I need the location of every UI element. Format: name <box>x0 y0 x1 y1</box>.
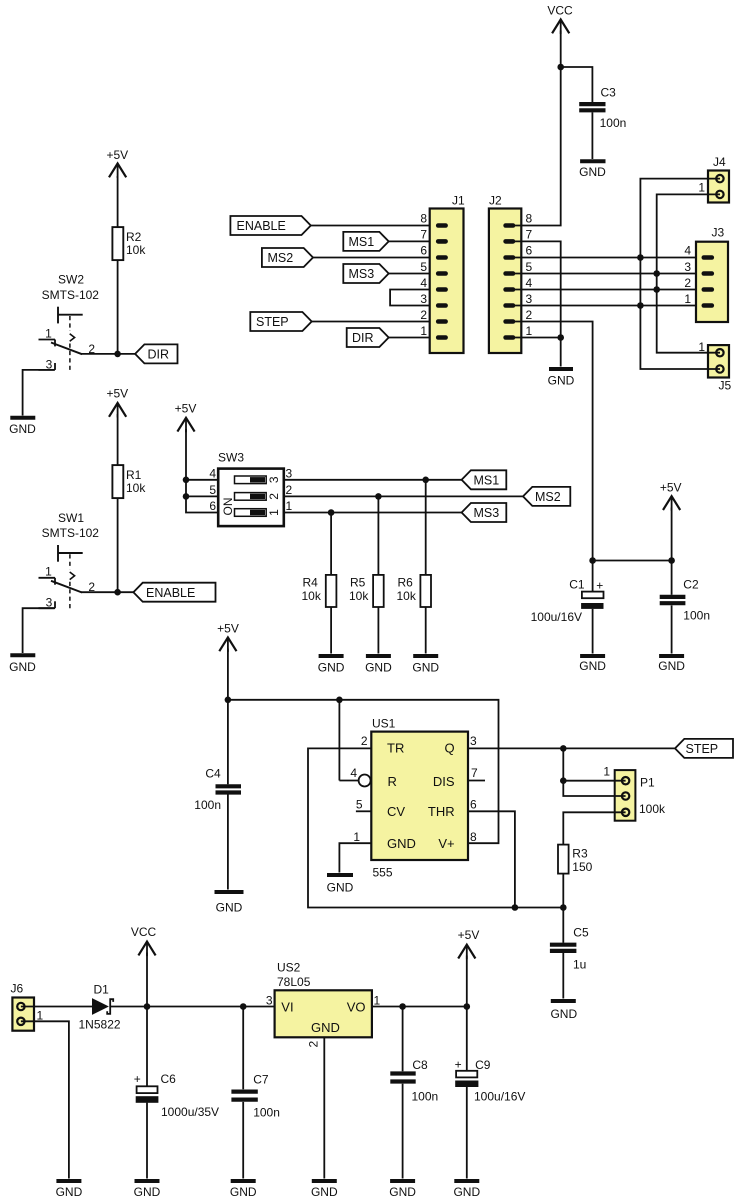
op-amp US1 (555 timer) <box>371 717 468 880</box>
svg-text:Q: Q <box>444 741 454 756</box>
resistor R3 <box>558 845 593 874</box>
ground (C4) <box>215 892 244 915</box>
wire C5 to ground <box>562 953 564 999</box>
junction C4 node <box>225 697 232 704</box>
svg-text:D1: D1 <box>94 983 110 997</box>
connector J6 <box>11 982 44 1031</box>
svg-text:GND: GND <box>311 1020 340 1035</box>
wire C7 node down <box>242 1007 244 1090</box>
svg-text:MS1: MS1 <box>349 235 375 249</box>
svg-text:GND: GND <box>56 1185 83 1199</box>
svg-text:100n: 100n <box>253 1106 280 1120</box>
svg-text:GND: GND <box>550 1007 577 1021</box>
net flag STEP (at 555) <box>675 739 733 758</box>
svg-text:7: 7 <box>471 766 478 780</box>
wire J4 pin bottom to J5 top <box>657 194 720 352</box>
wire J4 pin top to J5 bottom <box>640 179 720 369</box>
svg-text:GND: GND <box>412 661 439 675</box>
svg-text:4: 4 <box>420 276 427 290</box>
svg-text:C2: C2 <box>683 578 699 592</box>
connector J3 <box>696 226 728 323</box>
svg-text:GND: GND <box>579 659 606 673</box>
svg-text:6: 6 <box>420 244 427 258</box>
junction SW3 pin5 <box>183 493 190 500</box>
svg-text:GND: GND <box>311 1185 338 1199</box>
svg-text:7: 7 <box>420 228 427 242</box>
svg-text:4: 4 <box>684 244 691 258</box>
svg-text:MS3: MS3 <box>349 267 375 281</box>
svg-text:1: 1 <box>353 830 360 844</box>
svg-text:2: 2 <box>420 308 427 322</box>
svg-text:4: 4 <box>350 766 357 780</box>
svg-text:1: 1 <box>374 994 381 1008</box>
capacitor C2 <box>660 578 710 623</box>
svg-text:P1: P1 <box>640 776 655 790</box>
svg-text:ON: ON <box>221 498 235 516</box>
junction SW3 pin4 <box>183 477 190 484</box>
svg-text:GND: GND <box>216 901 243 915</box>
capacitor C7 <box>231 1073 280 1120</box>
junction VCC/C3 <box>557 64 564 71</box>
wire Q node down to P1 <box>563 748 625 796</box>
wire SW3 pin1 to MS3 <box>284 512 462 514</box>
wire GND pin1 <box>339 843 371 872</box>
svg-text:1: 1 <box>526 324 533 338</box>
wire SW1 pin2 to ENABLE flag <box>81 591 133 593</box>
svg-text:GND: GND <box>658 659 685 673</box>
wire D1 to US2 VI <box>111 1006 275 1008</box>
net flag DIR (to J1.1) <box>347 328 389 347</box>
wire SW1 pin3 to ground <box>23 608 54 653</box>
US2 pin numbers <box>266 994 381 1048</box>
svg-text:555: 555 <box>373 866 393 880</box>
svg-text:R2: R2 <box>126 230 142 244</box>
svg-text:C7: C7 <box>253 1073 269 1087</box>
wire +5V down to C4 node <box>227 649 229 700</box>
wire R4 to ground <box>330 607 332 654</box>
junction J4 net / J3 pin1 <box>637 302 644 309</box>
wire to SW3 pin 5 <box>186 495 218 497</box>
svg-text:GND: GND <box>9 660 36 674</box>
ground (R5) <box>365 656 392 675</box>
svg-text:GND: GND <box>579 165 606 179</box>
wire MS1 to J1 pin 7 <box>389 240 436 242</box>
wire SW3 pin2 to MS2 <box>284 495 523 497</box>
connector J4 <box>698 155 729 203</box>
svg-text:J5: J5 <box>719 379 732 393</box>
svg-text:VCC: VCC <box>131 925 157 939</box>
junction MS2/R5 <box>375 493 382 500</box>
net flag DIR (left) <box>135 344 177 363</box>
svg-text:1u: 1u <box>573 958 586 972</box>
svg-text:V+: V+ <box>438 836 454 851</box>
ground (US2) <box>311 1181 338 1199</box>
svg-text:5: 5 <box>356 797 363 811</box>
svg-text:3: 3 <box>470 734 477 748</box>
capacitor C8 <box>390 1058 438 1104</box>
wire SW3 pin3 to MS1 <box>284 479 462 481</box>
capacitor C9 (polarized) <box>455 1058 526 1104</box>
svg-text:MS3: MS3 <box>474 506 500 520</box>
junction C7 node <box>240 1003 247 1010</box>
net flag MS3 (at SW3) <box>462 503 507 522</box>
ground (SW1) <box>9 655 36 674</box>
resistor R2 <box>112 227 146 260</box>
svg-text:ENABLE: ENABLE <box>237 219 286 233</box>
svg-text:2: 2 <box>361 734 368 748</box>
wire J2 pin 2 down <box>515 322 593 561</box>
net flag MS1 (at SW3) <box>462 470 507 489</box>
ground (C2) <box>658 656 685 673</box>
svg-text:GND: GND <box>230 1185 257 1199</box>
svg-text:8: 8 <box>526 212 533 226</box>
svg-text:5: 5 <box>526 260 533 274</box>
svg-text:GND: GND <box>318 661 345 675</box>
resistor R1 <box>112 465 146 498</box>
connector J2 <box>489 194 521 354</box>
wire reset node down to pin 4 bubble <box>338 700 340 781</box>
svg-text:8: 8 <box>420 212 427 226</box>
wire STEP to J1 pin 2 <box>312 321 436 323</box>
wire US2 VO to +5V node <box>372 1006 467 1008</box>
svg-text:1: 1 <box>603 765 610 779</box>
svg-text:SW3: SW3 <box>218 451 244 465</box>
resistor R4 <box>302 575 337 607</box>
junction C8 node <box>399 1003 406 1010</box>
wire J2 pin 1 <box>515 337 561 339</box>
svg-text:SW2: SW2 <box>58 273 84 287</box>
wire +5V down to rail <box>671 508 673 561</box>
ground (C1) <box>579 656 606 673</box>
J3 pin numbers 4..1 <box>684 244 691 306</box>
svg-text:8: 8 <box>470 830 477 844</box>
supply +5V (R2 pull-up) <box>106 148 128 178</box>
svg-text:GND: GND <box>548 374 575 388</box>
svg-text:100n: 100n <box>600 116 627 130</box>
capacitor C4 <box>194 767 241 813</box>
svg-text:78L05: 78L05 <box>277 975 311 989</box>
ground (R6) <box>412 656 439 675</box>
wire rail to C2 <box>671 561 673 595</box>
svg-text:100n: 100n <box>683 609 710 623</box>
junction P1 pin1 <box>560 777 567 784</box>
svg-text:R: R <box>388 774 397 789</box>
US1 pin 4 inversion bubble <box>359 775 371 787</box>
svg-text:10k: 10k <box>302 589 322 603</box>
svg-text:100n: 100n <box>412 1090 439 1104</box>
ground (R4) <box>318 656 345 675</box>
svg-text:2: 2 <box>684 276 691 290</box>
capacitor C1 (polarized) <box>531 578 604 625</box>
wire C1 node to C2 node <box>593 560 672 562</box>
wire +5V to SW3 pin 6 <box>186 429 218 513</box>
svg-text:3: 3 <box>526 292 533 306</box>
svg-text:+5V: +5V <box>106 148 128 162</box>
J1 pin numbers 8..1 <box>420 212 427 339</box>
net flag ENABLE (to J1.8) <box>230 216 310 235</box>
ground (C8) <box>389 1181 416 1199</box>
junction VCC node <box>144 1003 151 1010</box>
svg-text:J6: J6 <box>11 982 24 996</box>
wire down to C5 <box>562 908 564 943</box>
svg-text:1000u/35V: 1000u/35V <box>161 1105 219 1119</box>
ground (C7) <box>230 1181 257 1199</box>
svg-text:DIR: DIR <box>148 348 170 362</box>
wire THR pin6 to bottom rail <box>468 811 515 907</box>
voltage regulator US2 78L05 <box>275 961 372 1038</box>
US1 pin numbers <box>350 734 478 844</box>
svg-text:3: 3 <box>684 260 691 274</box>
svg-text:10k: 10k <box>349 589 369 603</box>
svg-text:DIS: DIS <box>433 774 455 789</box>
svg-text:VCC: VCC <box>547 4 573 18</box>
svg-text:1N5822: 1N5822 <box>79 1018 121 1032</box>
wire C9 node down <box>466 1007 468 1072</box>
net flag MS3 (to J1.5) <box>343 264 388 283</box>
supply +5V (C2 rail) <box>660 481 682 511</box>
wire rail to C1 <box>592 561 594 592</box>
wire SW2 pin3 to ground <box>23 370 54 416</box>
junction Q/P1 <box>560 745 567 752</box>
svg-text:1: 1 <box>698 181 705 195</box>
svg-text:2: 2 <box>267 493 281 500</box>
wire R1 to node ENABLE <box>117 498 119 592</box>
wire J6 top pin to D1 <box>21 1006 92 1008</box>
svg-text:R6: R6 <box>398 576 414 590</box>
wire MS2 to J1 pin 6 <box>313 257 436 259</box>
ground (C3) <box>579 161 606 179</box>
svg-text:1: 1 <box>286 499 293 513</box>
wire MS3 node down to R4 <box>330 513 332 575</box>
wire C1 to ground <box>592 609 594 654</box>
svg-text:STEP: STEP <box>686 742 719 756</box>
junction R3/C5/rail <box>560 904 567 911</box>
wire C4 to ground <box>227 795 229 890</box>
wire C4 node down to C4 <box>227 700 229 785</box>
svg-text:J3: J3 <box>712 226 725 240</box>
wire +5V to R2 <box>117 176 119 227</box>
wire C8 node down <box>402 1007 404 1072</box>
svg-text:10k: 10k <box>126 243 146 257</box>
wire +5V to R1 <box>117 414 119 465</box>
svg-text:J2: J2 <box>489 194 502 208</box>
svg-text:1: 1 <box>45 326 52 340</box>
svg-text:1: 1 <box>45 565 52 579</box>
wire VCC down to node <box>146 953 148 1007</box>
svg-text:10k: 10k <box>126 481 146 495</box>
svg-text:GND: GND <box>387 836 416 851</box>
wire to P1 pin 1 <box>563 780 625 782</box>
svg-text:C4: C4 <box>205 767 221 781</box>
svg-text:3: 3 <box>266 994 273 1008</box>
svg-text:3: 3 <box>286 466 293 480</box>
stub CV pin5 <box>356 810 371 812</box>
svg-text:2: 2 <box>307 1041 321 1048</box>
svg-text:C1: C1 <box>569 578 585 592</box>
svg-text:6: 6 <box>526 244 533 258</box>
svg-text:TR: TR <box>387 741 404 756</box>
junction J5 net / J3 pin3 <box>653 270 660 277</box>
ground (SW2) <box>9 418 36 436</box>
svg-text:100u/16V: 100u/16V <box>474 1090 525 1104</box>
wire Q pin3 to STEP <box>468 747 675 749</box>
svg-text:GND: GND <box>327 881 354 895</box>
svg-text:GND: GND <box>453 1185 480 1199</box>
net flag STEP (to J1.2) <box>250 312 311 331</box>
svg-text:J1: J1 <box>452 194 465 208</box>
junction reset node <box>336 697 343 704</box>
svg-text:150: 150 <box>572 860 592 874</box>
supply +5V (SW3) <box>175 402 197 433</box>
junction MS1/R6 <box>422 477 429 484</box>
svg-text:R3: R3 <box>572 847 588 861</box>
wire to SW3 pin 4 <box>186 479 218 481</box>
ground (C6) <box>134 1181 161 1199</box>
svg-text:2: 2 <box>526 308 533 322</box>
svg-text:THR: THR <box>428 804 455 819</box>
svg-text:+: + <box>134 1072 141 1086</box>
DIP switch SW3 <box>218 451 284 527</box>
svg-text:+5V: +5V <box>106 387 128 401</box>
wire VCC down to J2 pin 8 <box>515 31 561 226</box>
wire C9 to ground <box>466 1087 468 1179</box>
supply +5V (555) <box>217 622 239 652</box>
svg-text:+5V: +5V <box>660 481 682 495</box>
svg-text:+: + <box>455 1058 462 1072</box>
svg-text:1: 1 <box>267 509 281 516</box>
svg-text:GND: GND <box>389 1185 416 1199</box>
supply VCC (top) <box>547 4 573 35</box>
wire R3 to bottom rail <box>562 874 564 908</box>
net flag MS2 (to J1.6) <box>262 248 313 267</box>
svg-text:+5V: +5V <box>217 622 239 636</box>
svg-text:SW1: SW1 <box>58 511 84 525</box>
svg-text:CV: CV <box>387 804 405 819</box>
junction R2/SW2/DIR <box>114 351 121 358</box>
junction J5 net / J3 pin2 <box>653 286 660 293</box>
junction R1/SW1/ENABLE <box>114 589 121 596</box>
wire R5 to ground <box>377 607 379 654</box>
junction J2 pin1/GND rail <box>557 334 564 341</box>
svg-text:1: 1 <box>420 324 427 338</box>
svg-text:C9: C9 <box>475 1058 491 1072</box>
wire TR pin2 loop to THR bottom rail <box>308 748 563 907</box>
wire J2 pin 5 to J3 pin 3 <box>515 273 703 275</box>
net flag ENABLE (left) <box>133 583 215 602</box>
resistor R5 <box>349 575 384 607</box>
switch SW1 SMTS-102 <box>39 511 100 611</box>
svg-text:7: 7 <box>526 228 533 242</box>
wire P1 bottom to R3 <box>563 812 625 844</box>
SW3 left pin numbers 4,5,6 <box>209 466 216 513</box>
junction +5V / C2 <box>668 557 675 564</box>
junction VCC rail / C1 <box>589 557 596 564</box>
svg-text:SMTS-102: SMTS-102 <box>42 526 100 540</box>
svg-text:C6: C6 <box>161 1072 177 1086</box>
svg-text:GND: GND <box>134 1185 161 1199</box>
net flag MS1 (to J1.7) <box>343 232 388 251</box>
ground (J2) <box>548 369 575 388</box>
connector J5 <box>698 340 731 393</box>
wire J2 pin 3 to J3 pin 1 <box>515 305 703 307</box>
svg-text:6: 6 <box>470 797 477 811</box>
ground (J6) <box>56 1181 83 1199</box>
wire SW2 pin2 to DIR flag <box>81 353 135 355</box>
wire US2 GND pin to ground <box>323 1037 325 1178</box>
svg-text:3: 3 <box>420 292 427 306</box>
svg-text:100u/16V: 100u/16V <box>531 610 582 624</box>
svg-text:MS2: MS2 <box>535 490 561 504</box>
svg-text:4: 4 <box>209 466 216 480</box>
wire J2 pin 6 to J3 pin 4 <box>515 257 703 259</box>
wire VCC to C3 <box>561 67 593 102</box>
ground (C5) <box>550 1001 577 1021</box>
svg-text:+: + <box>596 579 603 593</box>
svg-text:4: 4 <box>526 276 533 290</box>
svg-text:C5: C5 <box>573 926 589 940</box>
svg-text:R4: R4 <box>303 576 319 590</box>
svg-text:1: 1 <box>684 292 691 306</box>
svg-text:100n: 100n <box>194 798 221 812</box>
unnamed net box J1 pins 4-3 <box>390 290 436 306</box>
svg-text:ENABLE: ENABLE <box>146 586 195 600</box>
svg-text:GND: GND <box>365 661 392 675</box>
wire C7 to ground <box>242 1102 244 1179</box>
wire MS3 to J1 pin 5 <box>389 273 436 275</box>
capacitor C5 <box>550 926 589 972</box>
svg-text:US1: US1 <box>372 717 396 731</box>
svg-text:10k: 10k <box>397 589 417 603</box>
wire ENABLE to J1 pin 8 <box>311 225 436 227</box>
wire C3 to ground <box>591 112 593 159</box>
svg-text:+5V: +5V <box>458 928 480 942</box>
net flag MS2 (at SW3) <box>523 487 570 506</box>
supply VCC (bottom) <box>131 925 157 956</box>
wire top rail to V+ <box>228 700 499 843</box>
junction THR / bottom rail <box>512 904 519 911</box>
supply +5V (US2 output) <box>458 928 480 959</box>
svg-text:MS2: MS2 <box>268 251 294 265</box>
svg-text:DIR: DIR <box>352 331 374 345</box>
switch SW2 SMTS-102 <box>39 273 100 373</box>
junction MS3/R4 <box>328 509 335 516</box>
wire +5V down to node <box>466 956 468 1007</box>
svg-text:5: 5 <box>209 483 216 497</box>
svg-text:VO: VO <box>347 1000 366 1015</box>
wire J2 pin 4 to J3 pin 2 <box>515 289 703 291</box>
capacitor C3 <box>579 86 626 131</box>
stub DIS pin7 <box>468 780 485 782</box>
svg-text:US2: US2 <box>277 961 301 975</box>
svg-text:J4: J4 <box>713 155 726 169</box>
svg-text:GND: GND <box>9 422 36 436</box>
supply +5V (R1 pull-up) <box>106 387 128 418</box>
svg-text:5: 5 <box>420 260 427 274</box>
svg-text:100k: 100k <box>639 802 666 816</box>
wire J2 pin 7 to ground <box>515 241 561 366</box>
diode D1 1N5822 <box>79 983 121 1032</box>
svg-text:C8: C8 <box>412 1058 428 1072</box>
svg-text:VI: VI <box>281 1000 293 1015</box>
junction J4 net / J3 pin4 <box>637 254 644 261</box>
svg-text:+5V: +5V <box>175 402 197 416</box>
wire J6 pin 1 to ground <box>21 1021 69 1178</box>
wire MS2 node down to R5 <box>377 496 379 575</box>
J2 pin numbers 8..1 <box>526 212 533 339</box>
wire DIR to J1 pin 1 <box>389 337 436 339</box>
wire C8 to ground <box>402 1084 404 1179</box>
wire node to C6 <box>146 1007 148 1087</box>
